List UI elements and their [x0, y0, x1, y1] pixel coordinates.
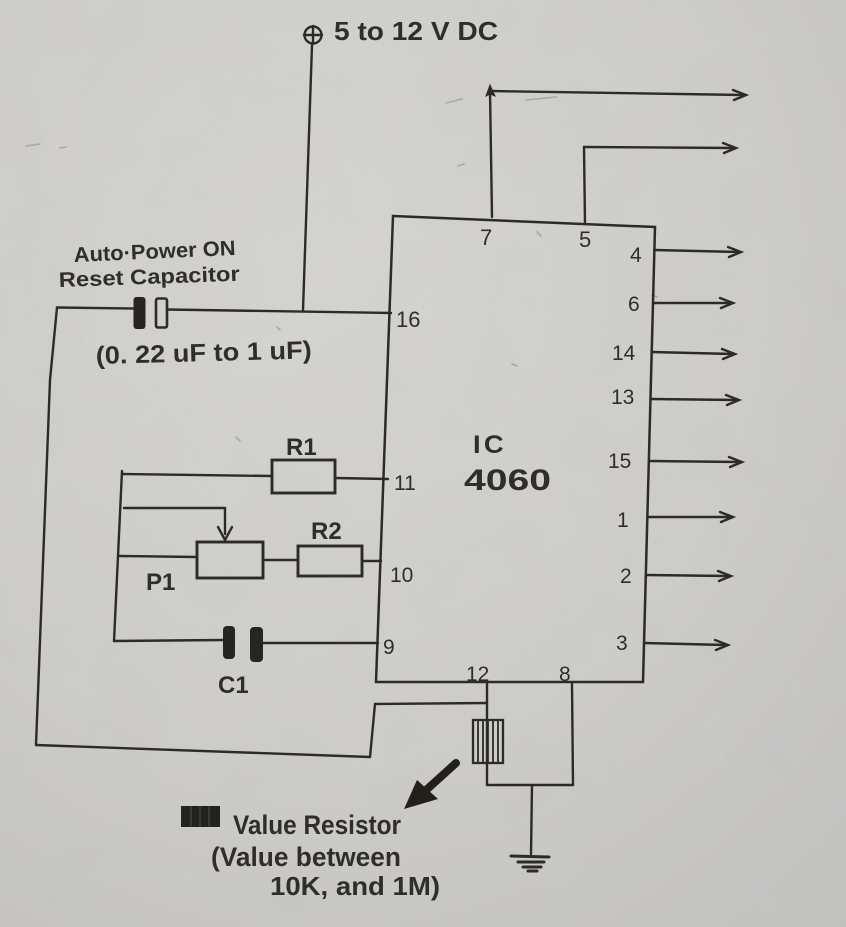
arrowhead up at pin 7 wire top — [486, 85, 495, 96]
capacitor C-reset (Auto Power ON reset capacitor) — [134, 297, 168, 329]
wire pin 4 output arrow — [655, 250, 740, 252]
wire pin 14 output arrow — [652, 352, 734, 354]
wire pin 6 output arrow — [653, 302, 731, 304]
wire left loop: horizontal to pin 12 net — [375, 703, 487, 704]
svg-text:C1: C1 — [218, 672, 249, 699]
svg-text:P1: P1 — [146, 569, 175, 596]
wire bus to R1 — [122, 474, 272, 476]
capacitor C1 — [223, 626, 263, 662]
wire pin 2 output arrow — [646, 575, 729, 576]
svg-text:4060: 4060 — [464, 464, 551, 497]
wire P1 to R2 — [263, 559, 298, 561]
callout arrow to value resistor — [404, 763, 456, 809]
potentiometer P1 — [197, 542, 263, 578]
wire from power terminal down to pin-16 net — [303, 45, 312, 310]
wire wiper branch — [124, 508, 225, 534]
svg-text:12: 12 — [466, 663, 489, 686]
svg-text:R1: R1 — [286, 434, 317, 461]
wire pin 12 down — [486, 684, 488, 785]
wire pin 8 down — [572, 684, 573, 785]
power supply positive terminal — [304, 26, 322, 44]
svg-text:Value Resistor: Value Resistor — [233, 810, 401, 840]
svg-text:IC: IC — [473, 431, 507, 459]
svg-text:5 to 12 V DC: 5 to 12 V DC — [334, 16, 498, 46]
wire pin 7 output arrow — [490, 91, 744, 95]
svg-text:14: 14 — [612, 342, 636, 365]
wire left loop: bottom horizontal — [36, 745, 370, 757]
wire pin 15 output arrow — [649, 461, 740, 462]
svg-text:13: 13 — [611, 386, 634, 409]
svg-text:15: 15 — [608, 450, 631, 473]
resistor R2 — [298, 546, 362, 576]
svg-text:3: 3 — [616, 632, 628, 655]
svg-text:5: 5 — [579, 227, 591, 252]
wire joining pin 12 and pin 8 — [487, 784, 573, 786]
svg-text:6: 6 — [628, 293, 640, 316]
wire R2 to pin 10 — [362, 560, 381, 562]
svg-text:2: 2 — [620, 565, 632, 588]
wire to ground — [531, 785, 532, 854]
wire bus to P1 — [119, 556, 197, 557]
wire pin 5 vertical — [584, 147, 585, 224]
smudge marks (faint) — [26, 97, 657, 441]
wire pin 1 output arrow — [648, 516, 732, 518]
wire reset net left segment — [57, 308, 134, 309]
svg-text:(0. 22 uF to 1 uF): (0. 22 uF to 1 uF) — [95, 336, 312, 370]
IC U1 4060 body — [376, 216, 655, 682]
wire pin 13 output arrow — [651, 399, 738, 400]
svg-text:8: 8 — [559, 663, 571, 686]
svg-text:10K, and 1M): 10K, and 1M) — [270, 871, 440, 901]
wire C1 to pin 9 — [263, 642, 378, 644]
wire left bus vertical — [114, 471, 122, 641]
arrowhead wiper onto P1 — [218, 527, 232, 540]
wire R1 to pin 11 — [335, 478, 388, 479]
wire left loop: down left side — [36, 308, 57, 746]
resistor R1 — [272, 460, 335, 493]
svg-text:11: 11 — [394, 472, 416, 495]
wire pin 5 output arrow — [584, 147, 734, 148]
svg-text:1: 1 — [617, 509, 629, 532]
wire bus to C1 — [114, 640, 223, 641]
legend swatch (hatched resistor sample) — [181, 806, 220, 827]
wire reset net right segment to pin 16 — [167, 310, 391, 314]
svg-text:4: 4 — [630, 244, 642, 267]
value resistor (hatched) on pin 12 — [473, 720, 503, 763]
wire left loop: up to pin-12 branch — [370, 704, 375, 757]
svg-text:9: 9 — [383, 636, 395, 659]
svg-text:(Value between: (Value between — [211, 842, 401, 872]
svg-text:16: 16 — [396, 307, 420, 332]
wire pin 3 output arrow — [644, 643, 726, 645]
ground symbol — [511, 856, 549, 871]
svg-text:7: 7 — [480, 225, 492, 250]
svg-text:10: 10 — [390, 564, 413, 587]
svg-text:R2: R2 — [311, 518, 342, 545]
wire pin 7 vertical — [490, 91, 492, 217]
